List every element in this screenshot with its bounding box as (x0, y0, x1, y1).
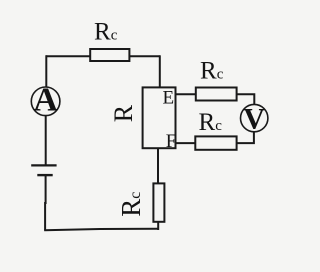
component box R (143, 87, 176, 148)
resistor Rc (lower right) (195, 136, 236, 149)
svg-text:R: R (109, 104, 138, 122)
svg-text:Rc: Rc (199, 109, 223, 136)
svg-text:Rc: Rc (200, 57, 224, 84)
battery short plate (37, 174, 52, 176)
wire ammeter to battery (45, 116, 47, 165)
wire battery to bottom (44, 176, 47, 231)
resistor Rc (upper right) (196, 88, 237, 101)
wire resistor to R box bottom (157, 148, 159, 185)
svg-text:F: F (166, 131, 177, 152)
wire E to resistor Rc (upper right) (176, 93, 196, 95)
wire top corner to R box top (159, 55, 161, 88)
wire resistor to voltmeter top (237, 94, 255, 104)
resistor Rc (top) (90, 49, 129, 61)
svg-text:V: V (243, 102, 265, 135)
battery long plate (31, 164, 56, 166)
svg-text:Rc: Rc (116, 192, 146, 217)
wire voltmeter bottom to corner (237, 132, 254, 143)
svg-text:Rc: Rc (94, 18, 118, 45)
resistor Rc (vertical, bottom) (153, 183, 164, 221)
wire F to resistor Rc (lower right) (176, 142, 196, 144)
wire left vertical upper (45, 55, 47, 87)
wire bottom horizontal (44, 229, 158, 231)
svg-text:E: E (163, 88, 175, 109)
wire top horizontal (46, 55, 160, 57)
svg-text:A: A (33, 81, 58, 118)
voltmeter V (241, 102, 268, 135)
wire bottom stub to resistor Rc (vertical) (157, 222, 159, 230)
ammeter A (31, 81, 60, 118)
